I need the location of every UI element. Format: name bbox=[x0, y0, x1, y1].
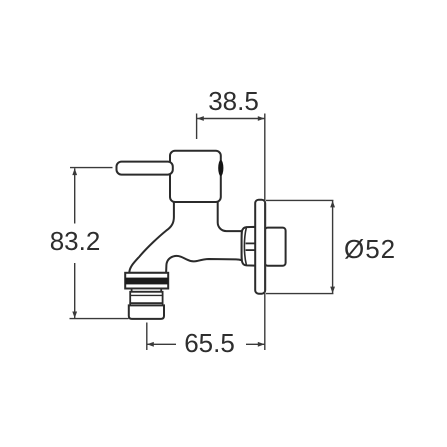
nipple neck ring bbox=[132, 289, 162, 292]
svg-text:83.2: 83.2 bbox=[50, 226, 101, 256]
dimension 83.2 extension line top bbox=[70, 167, 113, 169]
wall shank bbox=[265, 228, 286, 266]
arrow 65.5 left bbox=[147, 342, 154, 347]
dimension 38.5 line bbox=[197, 118, 265, 120]
handle lever bbox=[117, 162, 173, 175]
valve head (bonnet) bbox=[170, 151, 221, 202]
hex nut corner arc bbox=[244, 227, 246, 265]
dimension 65.5 extension line left bbox=[146, 323, 148, 351]
dimension D52 line bbox=[332, 200, 334, 293]
hex nut facet line upper bbox=[246, 242, 256, 244]
arrow 38.5 right bbox=[258, 116, 265, 121]
wall face extension line (long, right) bbox=[264, 114, 266, 351]
svg-text:Ø52: Ø52 bbox=[344, 234, 396, 264]
outlet collar bbox=[125, 273, 168, 289]
wall flange (escutcheon, side view) bbox=[255, 200, 265, 294]
nipple bottom cap bbox=[129, 305, 164, 319]
arrow 65.5 right bbox=[258, 342, 265, 347]
nipple upper section bbox=[130, 292, 162, 303]
arrow D52 bottom bbox=[330, 287, 335, 294]
dimension 65.5 line left segment bbox=[147, 343, 176, 345]
svg-text:38.5: 38.5 bbox=[208, 86, 259, 116]
dimension 83.2 line upper segment bbox=[74, 168, 76, 223]
dimension 83.2 line lower segment bbox=[74, 263, 76, 318]
nipple groove line bbox=[130, 294, 162, 296]
indicator cap on head edge bbox=[218, 160, 223, 176]
arrow D52 top bbox=[330, 201, 335, 208]
dimension 83.2 extension line bottom bbox=[70, 318, 129, 320]
arrow 83.2 top bbox=[72, 168, 77, 175]
faucet body (bell + spout underside) bbox=[129, 201, 242, 273]
dimension D52 extension line top bbox=[266, 199, 333, 201]
arrow 83.2 bottom bbox=[72, 312, 77, 319]
dimension D52 extension line bottom bbox=[266, 293, 333, 295]
arrow 38.5 left bbox=[197, 116, 204, 121]
collar black band bbox=[125, 278, 168, 285]
nipple step band bbox=[130, 303, 162, 305]
hex nut facet line lower bbox=[246, 249, 256, 251]
dimension 38.5 extension line left bbox=[196, 114, 198, 140]
svg-text:65.5: 65.5 bbox=[184, 328, 235, 358]
dimension 65.5 line right segment bbox=[246, 343, 265, 345]
hex nut bbox=[242, 227, 256, 266]
